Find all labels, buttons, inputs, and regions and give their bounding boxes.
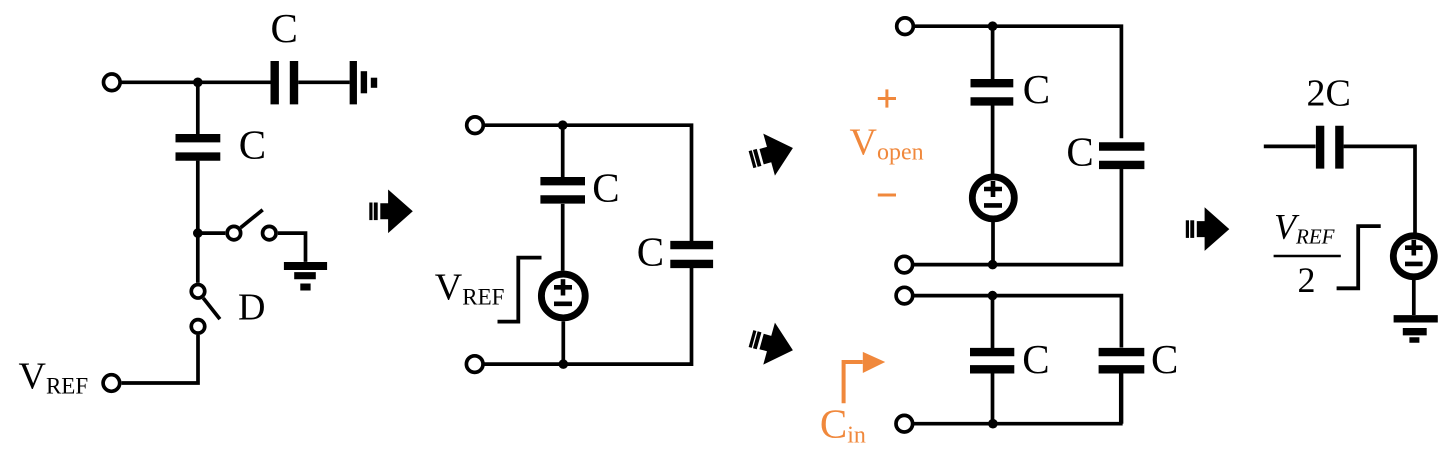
wire right capacitor down — [1120, 374, 1124, 424]
wire switch D to terminal VREF — [122, 335, 198, 383]
wire switch S1 to ground — [278, 233, 306, 262]
wire node to capacitor — [561, 125, 565, 177]
node top — [558, 120, 568, 130]
switch S1 arm — [241, 210, 263, 228]
bottom rail with right corner — [913, 169, 1121, 265]
svg-text:2C: 2C — [1307, 73, 1351, 115]
terminal top-left — [467, 117, 484, 134]
svg-text:C: C — [1023, 66, 1050, 112]
node top — [988, 21, 998, 31]
arrow 4 — [1186, 207, 1230, 251]
svg-text:Vopen: Vopen — [850, 122, 924, 166]
node B — [193, 228, 203, 238]
voltage source Vopen — [972, 177, 1014, 219]
capacitor C top (series) plates — [275, 61, 294, 104]
capacitor C plates (middle right branch) — [670, 245, 713, 264]
ground — [1394, 319, 1438, 340]
terminal top-left — [897, 18, 914, 35]
ground sideways — [353, 61, 374, 104]
svg-text:C: C — [592, 164, 619, 210]
wire node to capacitor — [991, 296, 995, 348]
wire capacitor to ground — [298, 80, 350, 84]
wire node to capacitor — [991, 26, 995, 79]
source minus — [1405, 262, 1423, 267]
capacitor C plates (top branch) — [971, 83, 1014, 101]
wire source to bottom — [991, 222, 995, 265]
bottom rail — [483, 268, 692, 364]
wire capacitor to source — [561, 204, 565, 271]
node bottom — [988, 419, 998, 429]
arrow 3 — [745, 318, 799, 372]
node bottom — [988, 260, 998, 270]
top rail with right corner — [913, 296, 1122, 348]
wire source to ground — [1412, 280, 1416, 315]
capacitor C plates (right branch) — [1099, 147, 1144, 165]
capacitor C plates (right) — [1099, 352, 1145, 369]
wire capacitor to source — [1344, 146, 1415, 232]
svg-text:2: 2 — [1298, 260, 1316, 300]
capacitor 2C plates — [1320, 126, 1339, 169]
label plus (orange) — [878, 89, 896, 107]
wire node B to switch S1 — [198, 231, 226, 235]
svg-text:D: D — [238, 286, 265, 328]
arrow 2 — [745, 127, 799, 181]
svg-text:Cin: Cin — [820, 401, 866, 449]
node A — [193, 78, 203, 88]
source plus — [984, 181, 1002, 197]
source minus — [554, 301, 572, 306]
switch S1 contact right — [263, 226, 277, 240]
voltage source VREF/2 — [1393, 236, 1434, 277]
wire capacitor to bottom node — [991, 374, 995, 424]
source plus — [1405, 240, 1423, 256]
arrowhead Cin — [863, 352, 885, 373]
node top — [988, 291, 998, 301]
voltage source VREF — [541, 274, 585, 318]
terminal T1 top-left — [104, 74, 121, 91]
svg-text:C: C — [239, 121, 266, 167]
bracket VREF — [498, 258, 542, 322]
terminal bottom-left — [896, 415, 913, 432]
source minus — [984, 203, 1002, 208]
node bottom — [559, 359, 569, 369]
svg-text:C: C — [1022, 336, 1049, 382]
svg-text:C: C — [637, 228, 664, 274]
bottom rail — [913, 374, 1121, 424]
svg-text:C: C — [1151, 336, 1178, 382]
wire T1 to node A — [120, 80, 270, 84]
wire C2 to node B — [196, 161, 200, 283]
switch S1 contact left — [227, 226, 241, 240]
svg-text:C: C — [271, 5, 298, 51]
capacitor C2 plates — [176, 138, 221, 156]
top rail with right corner — [913, 26, 1121, 138]
switch D contact bottom — [191, 320, 205, 334]
switch D arm — [203, 298, 220, 319]
ground G2 — [284, 266, 327, 287]
terminal bottom-left — [896, 256, 913, 273]
wire node A down — [196, 82, 200, 134]
wire capacitor to source — [991, 105, 995, 174]
capacitor C plates (left) — [970, 352, 1014, 369]
svg-text:VREF: VREF — [19, 356, 89, 399]
wire top rail with right corner — [483, 125, 691, 241]
wire left stub — [1264, 145, 1316, 149]
label minus (orange) — [878, 194, 896, 197]
fraction bar — [1274, 255, 1341, 258]
source plus — [554, 279, 572, 295]
terminal bottom-left — [466, 356, 483, 373]
terminal VREF — [103, 375, 120, 392]
arrow Cin (orange) — [844, 362, 863, 403]
wire source to bottom node — [561, 321, 565, 364]
svg-text:C: C — [1066, 128, 1093, 174]
switch D contact top — [191, 285, 205, 299]
capacitor C plates (middle left branch) — [540, 181, 585, 199]
bracket VREF/2 — [1337, 226, 1381, 288]
svg-text:VREF: VREF — [435, 267, 505, 310]
terminal top-left — [896, 287, 913, 304]
svg-text:VREF: VREF — [1274, 207, 1335, 249]
arrow 1 — [369, 190, 413, 234]
